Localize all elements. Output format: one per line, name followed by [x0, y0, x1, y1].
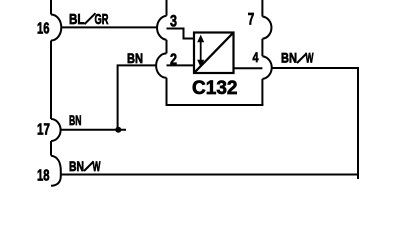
component C132 right edge between pin 7 and pin 4	[261, 39, 263, 56]
wire: internal wire from sensor box to pin 4	[234, 67, 263, 69]
svg-text:2: 2	[170, 51, 177, 68]
wire BL/GR from pin 16 to pin 3	[61, 26, 157, 28]
component C132 left edge between pin 3 and pin 2	[166, 40, 168, 54]
component C132 left edge below pin 2	[166, 78, 168, 105]
svg-text:BN: BN	[127, 51, 143, 66]
wire BN from pin 17 to junction	[60, 129, 126, 131]
svg-text:16: 16	[37, 20, 50, 37]
sensor box U (square)	[194, 33, 234, 74]
pin 4 bump	[262, 56, 271, 79]
svg-text:7: 7	[248, 11, 255, 29]
svg-text:3: 3	[170, 12, 177, 30]
svg-text:C132: C132	[192, 78, 238, 99]
sensor diagonal line	[195, 33, 233, 72]
wire: junction riser up to pin 2 level	[118, 65, 157, 129]
svg-text:BN: BN	[69, 113, 82, 128]
svg-text:BN: BN	[69, 159, 84, 174]
wire: left connector line segment above pin 16	[50, 0, 52, 15]
svg-text:18: 18	[37, 167, 50, 184]
pin 3 bump	[157, 16, 166, 40]
pin 2 bump	[156, 53, 166, 77]
svg-text:BL: BL	[69, 12, 85, 28]
pin 18 bump	[51, 156, 61, 186]
svg-text:BN: BN	[281, 51, 297, 66]
pin 16 bump	[51, 15, 61, 41]
svg-text:4: 4	[253, 50, 259, 65]
wire: left connector line between pin 16 and 17	[50, 41, 52, 120]
wire: internal stepped wire from pin 3 into sensor box	[167, 29, 195, 39]
wire BN/W from pin 18 along bottom	[60, 174, 358, 176]
svg-text:GR: GR	[95, 12, 109, 28]
component C132 right edge below pin 4	[261, 79, 263, 105]
pin 17 bump	[51, 119, 61, 141]
wire: internal wire from pin 2 into sensor box	[167, 64, 195, 66]
component C132 left edge above pin 3	[166, 0, 168, 16]
svg-text:17: 17	[37, 121, 50, 138]
component C132 right edge above pin 7	[261, 0, 263, 17]
component C132 bottom edge	[166, 104, 264, 106]
pin 7 bump	[262, 17, 271, 39]
wire: right side vertical from pin 4 wire down to bottom wire	[357, 68, 359, 179]
svg-text:W: W	[93, 159, 101, 174]
wire BN/W from pin 4 to right corner	[272, 67, 359, 69]
svg-text:W: W	[306, 51, 314, 66]
wire: left connector line between pin 17 and 18	[50, 141, 52, 156]
junction dot at BN wire	[115, 127, 121, 133]
sensor double arrow	[197, 35, 204, 68]
